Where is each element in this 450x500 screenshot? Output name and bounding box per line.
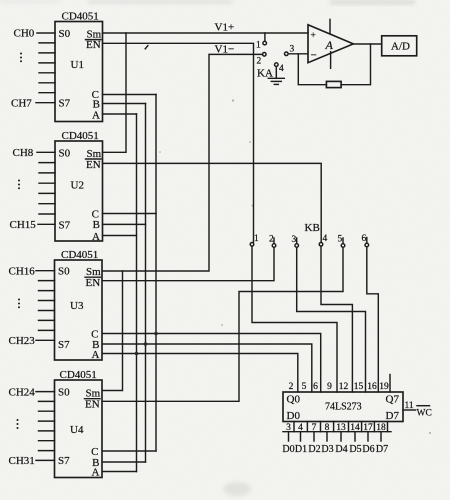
svg-text:CD4051: CD4051 [61,249,98,261]
wire CH31 to U4.S7 [36,459,55,461]
ellipsis dots U2 [18,180,20,190]
wire U1.B to B bus [103,103,146,105]
svg-text:V1+: V1+ [215,22,235,34]
wire U2.B to B bus [103,223,146,225]
svg-text:U1: U1 [71,59,84,71]
labels D0-D7 [282,444,388,455]
wire KB6 to latch pin 16 [367,247,379,392]
wire select bus B vertical [145,104,147,463]
svg-text:U2: U2 [71,180,84,192]
svg-text:CH7: CH7 [11,97,32,109]
junction dot A bus [135,352,139,356]
switch KA contact 4 [275,63,279,67]
svg-text:D4: D4 [335,444,347,455]
latch pin 11 wire [403,409,416,411]
svg-text:4: 4 [323,234,328,244]
wire net V1- : U3.Sm and U4.Sm up to switch KA contact 2 [103,54,263,390]
svg-text:3: 3 [290,45,295,55]
svg-text:CH23: CH23 [9,335,36,347]
svg-text:A: A [92,231,100,243]
svg-text:D6: D6 [362,444,374,455]
svg-text:Q0: Q0 [287,393,301,405]
wire KA contact 3 to op-amp minus input [289,53,309,55]
latch bottom pin numbers [286,423,386,433]
svg-text:−: − [311,50,317,62]
junction dot B bus [144,342,148,346]
svg-text:V1−: V1− [215,44,235,56]
label WC with overline [417,406,432,419]
switch KB contact 2 [269,235,276,248]
switch KB contact 3 [292,235,299,247]
wire select bus C vertical [155,95,157,452]
svg-text:EN: EN [85,399,100,411]
scan smudge top [0,0,415,5]
svg-text:D7: D7 [376,444,388,455]
svg-text:A: A [92,349,100,361]
wire select bus A vertical [136,114,138,472]
svg-text:CH31: CH31 [9,455,35,467]
svg-text:4: 4 [279,64,284,74]
U2 input stubs [39,163,55,214]
wire CH8 to U2.S0 [37,151,55,153]
svg-text:1: 1 [254,234,259,244]
svg-text:CD4051: CD4051 [62,130,99,142]
wire U3.C to latch pin 6 [103,334,321,393]
svg-text:2: 2 [257,57,262,67]
svg-text:9: 9 [327,382,332,392]
svg-text:A/D: A/D [391,41,410,53]
latch bottom pin ticks [294,422,388,432]
svg-text:1: 1 [256,41,261,51]
svg-text:S7: S7 [59,219,71,231]
wire CH7 to U1.S7 [36,102,55,104]
svg-text:CH24: CH24 [9,387,36,399]
wire KB3 to latch pin 15 [297,247,366,392]
wire U4.A to A bus [103,471,137,473]
wire KA contact 4 to ground [275,67,277,79]
wire CH23 to U3.S7 [36,339,55,341]
wire CH15 to U2.S7 [38,223,55,225]
wire U2.C to C bus [103,213,157,215]
svg-text:D1: D1 [295,444,307,455]
latch bottom pin row underline [283,431,391,433]
svg-text:A: A [325,38,334,52]
multiplexer U3 [55,249,103,361]
wire U1.C to C bus [103,94,157,96]
wire CH0 to U1.S0 [37,32,55,34]
svg-text:S7: S7 [58,455,70,467]
latch top pin tick 19 side [389,375,391,393]
svg-text:19: 19 [379,382,389,392]
wire U3.EN to KB contact 2 [103,248,275,281]
wire U2.EN down to KB contact 4 [103,163,322,241]
svg-text:CH0: CH0 [14,28,35,40]
wire op-amp output to A/D [353,43,381,45]
wire KB1 to latch pin 9 [252,246,337,392]
svg-text:U4: U4 [70,424,84,436]
svg-text:D3: D3 [321,444,333,455]
multiplexer U2 [55,130,103,243]
wire U4.B to B bus [103,461,146,463]
latch D input stubs [289,432,382,441]
wire U4.EN to KB contact 5 [103,248,344,401]
wire U4.C to C bus [103,450,157,452]
wire U3.B to latch pin 5 [103,344,312,392]
svg-text:U3: U3 [70,300,84,312]
svg-text:S7: S7 [59,97,71,109]
resistor Rf [326,81,341,87]
wire KB4 to latch pin 12 [321,246,352,392]
svg-text:WC: WC [417,409,432,419]
switch KB contact 1 [250,234,259,246]
svg-text:EN: EN [86,277,101,289]
svg-text:16: 16 [367,382,377,392]
svg-text:CH8: CH8 [13,147,34,159]
svg-text:Q7: Q7 [386,393,400,405]
A/D converter box [382,36,417,56]
svg-text:2: 2 [269,235,274,245]
svg-text:D7: D7 [386,410,400,422]
wire U1.EN down to KB contact 1 [103,43,254,242]
stray scan mark [145,46,148,49]
op-amp A [308,19,353,68]
wire U1.A to A bus [103,113,137,115]
svg-text:2: 2 [289,382,294,392]
switch KB contact 5 [338,235,345,248]
multiplexer U4 [55,369,103,479]
svg-text:D0: D0 [282,444,294,455]
svg-text:CH16: CH16 [9,265,36,277]
scan smudge bottom blob [223,482,251,496]
ellipsis dots U1 [20,53,22,63]
svg-text:12: 12 [339,382,349,392]
svg-text:74LS273: 74LS273 [325,401,362,412]
svg-text:S0: S0 [58,266,70,278]
svg-text:3: 3 [292,235,297,245]
svg-text:6: 6 [313,382,318,392]
svg-text:+: + [311,31,316,41]
scan speck [159,99,431,434]
switch KB contact 4 [319,234,327,246]
multiplexer U1 [55,11,103,122]
svg-text:S0: S0 [59,28,71,40]
svg-text:5: 5 [338,235,343,245]
switch KA contact 2 [263,53,267,57]
U1 input stubs [39,43,55,93]
svg-text:S7: S7 [58,339,70,351]
wire CH16 to U3.S0 [36,270,55,272]
ground [268,78,284,84]
svg-text:6: 6 [362,234,367,244]
wire CH24 to U4.S0 [36,391,55,393]
wire feedback loop [341,44,370,85]
svg-text:D0: D0 [287,410,301,422]
U4 input stubs [39,401,55,450]
svg-text:D2: D2 [308,444,320,455]
svg-text:S0: S0 [58,387,70,399]
wire U2.A to A bus [103,235,137,237]
svg-text:A: A [92,467,100,479]
switch KA contact 3 [285,52,289,56]
svg-text:EN: EN [86,159,101,171]
wire U3.A to latch pin 2 [103,354,298,393]
svg-text:S0: S0 [59,147,71,159]
junction dot C bus [154,332,158,336]
wire net V1+ : U1.Sm and U2.Sm to op-amp plus input [103,33,309,152]
svg-text:5: 5 [302,382,307,392]
U3 input stubs [39,281,55,331]
svg-text:CH15: CH15 [10,219,37,231]
latch 74LS273 [283,392,403,422]
svg-text:EN: EN [86,39,101,51]
svg-text:CD4051: CD4051 [62,11,99,23]
svg-text:11: 11 [405,401,414,411]
switch KB contact 6 [362,234,369,247]
svg-text:D5: D5 [349,444,361,455]
svg-text:KB: KB [305,222,320,234]
switch KA contact 1 [263,41,267,45]
svg-text:A: A [92,109,100,121]
svg-text:15: 15 [354,382,364,392]
ellipsis dots U3 [18,299,20,309]
svg-text:CD4051: CD4051 [60,369,97,381]
svg-text:B: B [93,219,100,231]
ellipsis dots U4 [17,419,19,429]
latch top pin numbers [289,382,389,392]
